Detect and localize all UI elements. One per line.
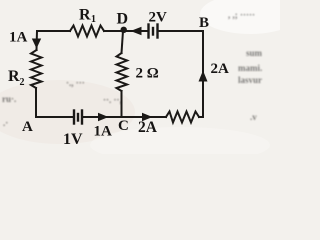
resistor 2 ohm: [117, 53, 128, 91]
svg-text:1: 1: [91, 14, 96, 25]
svg-text:2A: 2A: [211, 61, 230, 77]
bleed-through pink text right side: [2, 10, 263, 128]
svg-text:2: 2: [20, 77, 25, 88]
battery 2V: [149, 25, 158, 38]
svg-text:R: R: [79, 7, 91, 24]
svg-text:2A: 2A: [138, 119, 158, 136]
svg-text:1A: 1A: [94, 124, 113, 140]
svg-text:R: R: [8, 68, 20, 85]
svg-text:C: C: [118, 118, 129, 134]
wire top-left segment: [37, 30, 70, 32]
wire left side lower: [35, 88, 37, 117]
resistor R2: [31, 50, 42, 88]
arrow left toward D (top wire): [131, 27, 142, 35]
svg-text:mami.: mami.: [238, 63, 262, 73]
paper tone variations: [200, 0, 300, 34]
wire middle vertical upper: [122, 31, 124, 53]
svg-text:1A: 1A: [9, 30, 28, 46]
wire top right segment: [158, 30, 204, 32]
arrow 1A right (bottom wire): [98, 113, 109, 121]
svg-text:.·: .·: [3, 118, 8, 128]
wire left side upper: [36, 31, 39, 50]
arrow 1A down (left wire): [32, 39, 41, 49]
arrow 2A up (right wire): [199, 71, 208, 82]
wire middle vertical lower: [121, 91, 123, 117]
battery 1V: [74, 111, 82, 124]
svg-text:··. ··,: ··. ··,: [103, 95, 122, 105]
node D dot: [121, 27, 127, 33]
svg-text:, ,; ·····: , ,; ·····: [228, 10, 255, 20]
svg-text:lasvur: lasvur: [238, 75, 262, 85]
svg-text:.v: .v: [250, 112, 257, 122]
svg-text:D: D: [117, 11, 129, 28]
wire bottom left segment: [37, 116, 74, 118]
svg-text:·., ···: ·., ···: [66, 78, 85, 88]
svg-text:ru·.: ru·.: [2, 94, 16, 104]
wire bottom middle: [82, 116, 166, 118]
resistor R1: [70, 26, 104, 37]
wire bottom right segment: [199, 116, 203, 118]
resistor bottom (unlabeled): [166, 112, 199, 123]
svg-text:2V: 2V: [149, 10, 168, 26]
svg-text:2 Ω: 2 Ω: [136, 66, 159, 82]
wire right side: [202, 31, 204, 117]
svg-text:sum: sum: [246, 48, 263, 58]
arrow 2A right (bottom wire): [142, 113, 153, 121]
svg-text:B: B: [199, 15, 209, 31]
svg-text:A: A: [22, 119, 33, 135]
svg-text:1V: 1V: [63, 131, 83, 148]
wire top middle (resistor to battery): [104, 30, 148, 32]
